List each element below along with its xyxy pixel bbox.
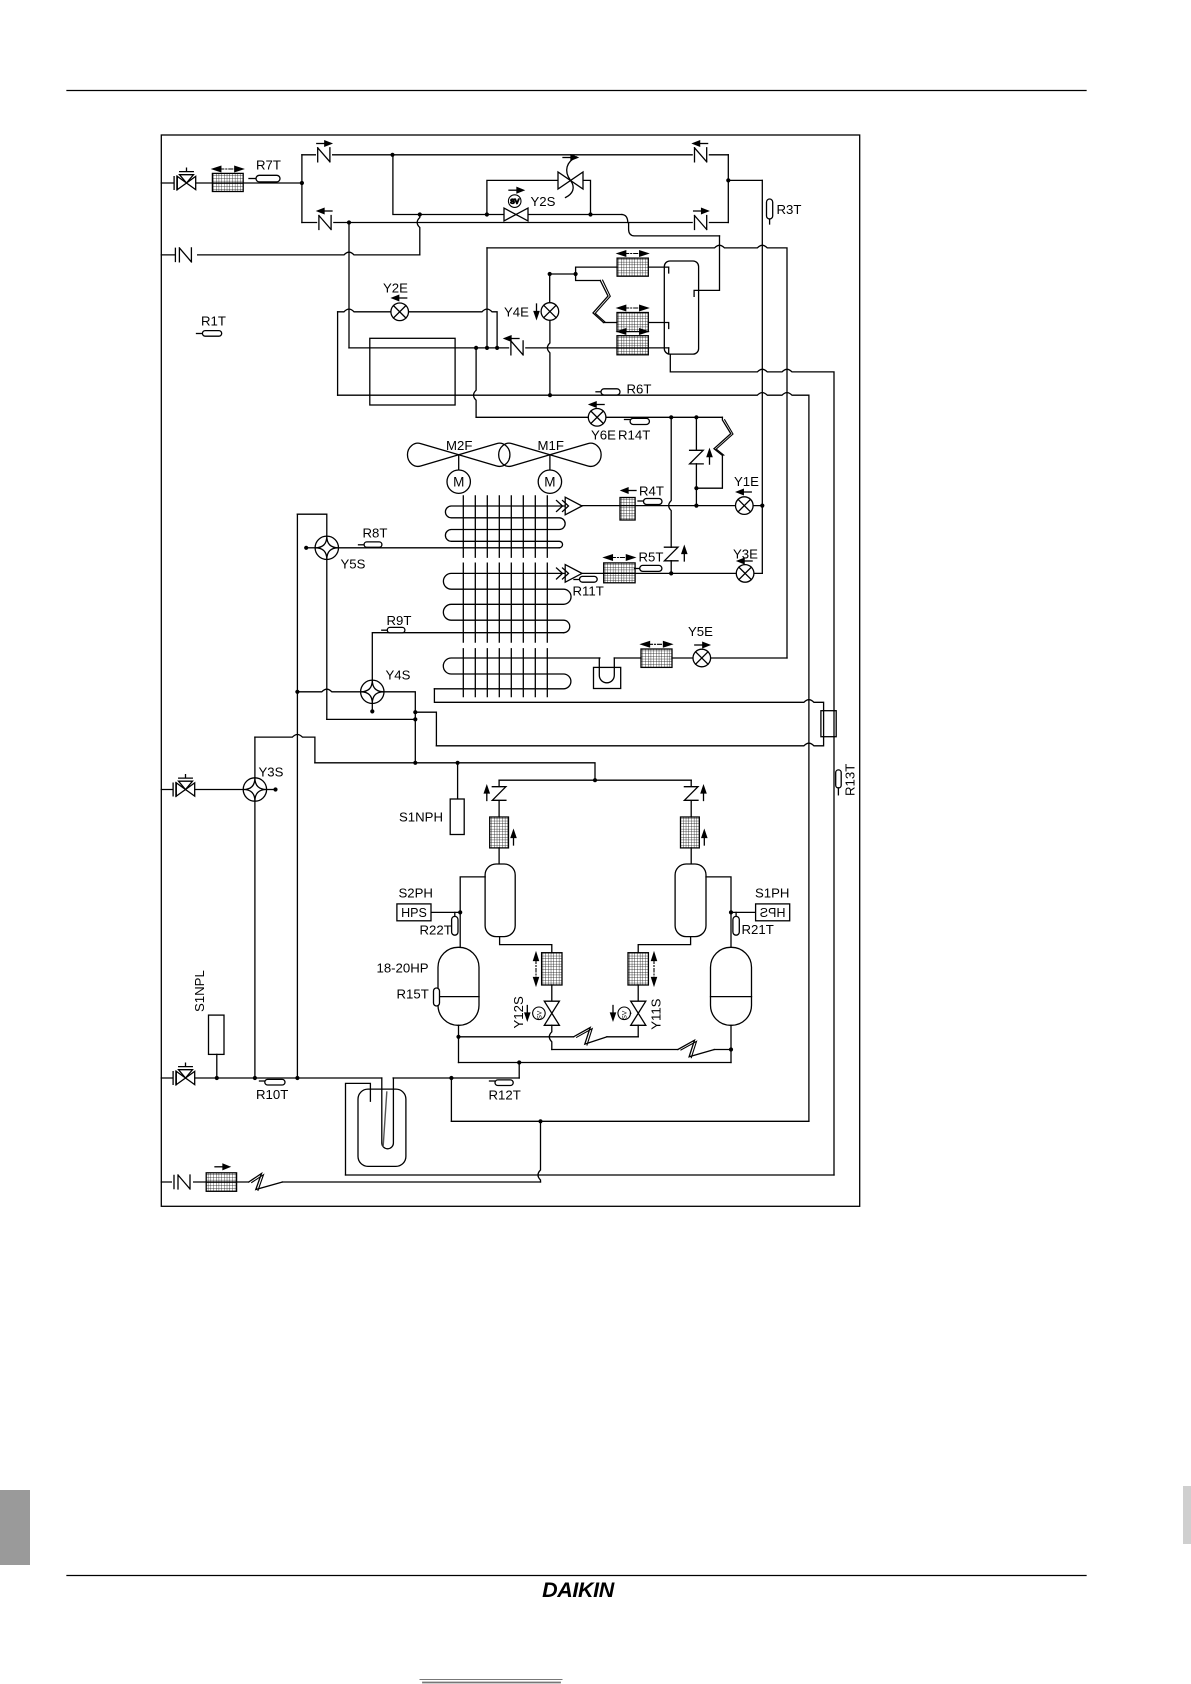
wire top check line y=154.8: [302, 154, 728, 156]
wire F2 to vessel: [648, 323, 668, 329]
sensor R6T capsule: [596, 391, 601, 393]
right gray sliver: [1183, 1486, 1191, 1544]
sensor R9T capsule: [382, 629, 387, 631]
wire R6T line y=395.2: [338, 393, 809, 1122]
svg-text:R1T: R1T: [201, 314, 226, 329]
wire oil return y=1175: [346, 1174, 835, 1176]
node 486.9: [485, 212, 489, 216]
svg-text:M: M: [544, 475, 555, 490]
page top rule: [67, 90, 1086, 92]
svg-text:SV: SV: [536, 1010, 543, 1019]
bottom footer microtext: [420, 1680, 562, 1683]
wire Y3S top link y=737.1: [255, 735, 315, 763]
wire FB2 to Y12S: [551, 985, 553, 1001]
muffler vessel left: [485, 864, 515, 937]
svg-text:Y11S: Y11S: [649, 998, 664, 1029]
node S1NPH tap: [456, 761, 460, 765]
oil separator vessel: [358, 1089, 406, 1166]
svg-text:M2F: M2F: [446, 438, 472, 453]
node header feed: [593, 778, 597, 782]
svg-text:Y5S: Y5S: [341, 557, 366, 572]
wire Y6E line y=417.3: [476, 416, 722, 418]
filter F5: [604, 563, 635, 583]
shutoff N symbol: [176, 248, 197, 263]
node z1 bottom: [694, 486, 698, 490]
check valve CV4: [693, 214, 709, 230]
wire lower check line y=222.5: [302, 222, 728, 224]
arrow beside Y12S: [525, 1006, 530, 1021]
node Y5S link: [413, 717, 417, 721]
wire drop from 247.9 x=487: [486, 248, 488, 348]
coil group A fins: [463, 496, 547, 557]
svg-text:R4T: R4T: [639, 484, 664, 499]
wire Y4S top to R9T line: [372, 633, 563, 680]
wire Y2E left drop x=337.6: [337, 312, 339, 395]
check valve CV1: [316, 147, 332, 163]
node suction join: [413, 761, 417, 765]
solenoid coil SV Y12S: [533, 1007, 546, 1020]
wire riser-drop x=476.1 to Y6E line: [474, 348, 477, 417]
wire S1NPH drop: [457, 763, 459, 799]
wire Y4S bottom stub: [371, 704, 373, 712]
check valve CV3: [693, 147, 709, 163]
coil group A tubes: [445, 506, 565, 548]
check valve CV2: [317, 214, 333, 230]
node gas-line tap: [538, 1119, 542, 1123]
svg-text:Y6E: Y6E: [591, 428, 616, 443]
wire drop to gas line: [450, 1078, 452, 1121]
wire HX feed line y=347.9: [349, 347, 669, 349]
wire Y2E line y=311.8: [338, 309, 498, 348]
filter F2: [617, 313, 648, 332]
wire R12T drop: [518, 1063, 520, 1079]
svg-text:Y3E: Y3E: [733, 547, 758, 562]
svg-text:M: M: [453, 475, 464, 490]
node R12T junction: [449, 1076, 453, 1080]
svg-text:SV: SV: [622, 1010, 629, 1019]
wire FB2r to muffler: [690, 848, 692, 864]
svg-text:HPS: HPS: [760, 906, 786, 920]
check valve right branch: [684, 787, 698, 801]
node y=222.5 x=349: [347, 220, 351, 224]
node comp right oil: [729, 1047, 733, 1051]
wire vessel right port: [694, 236, 719, 297]
svg-text:R9T: R9T: [387, 613, 412, 628]
wire bypass loop top y=180.4: [487, 180, 591, 214]
service joint rect: [821, 711, 836, 737]
wire right vertical x=728.3: [727, 155, 729, 223]
vertical arrows beside FB2: [534, 953, 539, 985]
coil group B tubes: [443, 573, 571, 632]
arrow beside right check: [701, 786, 706, 801]
sensor R12T capsule: [490, 1080, 495, 1082]
filter FB3: [628, 953, 648, 985]
node left riser bottom: [295, 1076, 299, 1080]
expansion valve Y2E: [391, 303, 409, 321]
node hot-gas tap: [413, 710, 417, 714]
filter F3 on HX feed line: [617, 336, 648, 355]
wire upper liquid header y=247.9: [487, 245, 787, 658]
arrow above Y1E: [737, 489, 752, 494]
node x=728.3 y=180.4: [726, 178, 730, 182]
svg-text:S1NPL: S1NPL: [192, 970, 207, 1012]
solenoid coil SV Y11S: [618, 1007, 631, 1020]
expansion Z valve Y1E branch: [690, 450, 704, 464]
wire compressor left bottom: [458, 1025, 460, 1062]
node econ feed: [548, 272, 552, 276]
wire jog up to filter F1 line: [576, 267, 618, 274]
zigzag on 1182: [249, 1174, 283, 1190]
wire vessel-out merge y=235.9: [629, 224, 720, 236]
coil group B fins: [463, 563, 547, 642]
svg-text:R10T: R10T: [256, 1087, 288, 1102]
wire hot-gas jog y=712.2: [415, 712, 436, 746]
node left riser Y4S: [295, 690, 299, 694]
svg-text:Y4S: Y4S: [386, 668, 411, 683]
wire Y5S top to left riser: [297, 514, 326, 536]
wire Y3S right stub: [267, 789, 276, 791]
wire F3 to vessel port tick: [668, 348, 670, 354]
wire R3T riser x=762.3: [761, 180, 763, 573]
node 487: [485, 346, 489, 350]
switch HPS S2PH box: [397, 904, 431, 921]
svg-text:R11T: R11T: [573, 584, 604, 599]
solenoid valve Y11S: [631, 1001, 646, 1025]
arrow above CV1: [317, 141, 332, 146]
wire vessel bottom to mid header: [670, 354, 834, 1175]
zigzag on 1036.8: [574, 1028, 607, 1045]
svg-text:R8T: R8T: [363, 526, 388, 541]
zigzag on 1049.5: [678, 1040, 714, 1057]
wire right branch drop: [690, 780, 692, 817]
wire Y5S bottom: [326, 560, 328, 720]
wire mid header B y=745.8: [436, 737, 823, 746]
distributor T2: [565, 565, 582, 583]
motorized valve stem: [566, 157, 577, 198]
vertical arrows beside FB3: [652, 953, 657, 985]
node on R4T line: [694, 504, 698, 508]
svg-text:18-20HP: 18-20HP: [377, 961, 429, 976]
wire suction header y=762.8: [315, 763, 595, 780]
compressor vessel left: [438, 947, 479, 1025]
svg-text:R5T: R5T: [639, 550, 664, 565]
node Y3S capped port: [273, 787, 277, 791]
node 671.2 on Y6E line: [669, 415, 673, 419]
stop valve (gas line): [173, 775, 195, 797]
dash-dot arrows above F1: [618, 251, 648, 256]
node CV1 out: [390, 153, 394, 157]
sensor R15T capsule: [434, 988, 440, 1006]
node Y3S drop: [253, 1076, 257, 1080]
node Y4S capped port: [370, 709, 374, 713]
wire R7T line y=183: [161, 182, 302, 184]
sensor R14T capsule: [625, 419, 631, 421]
coil group C tubes: [434, 658, 600, 689]
filter F6: [641, 649, 672, 667]
svg-text:M1F: M1F: [538, 438, 564, 453]
muffler vessel right: [675, 864, 706, 937]
wire Y4S right riser: [384, 692, 415, 763]
sensor S1NPL body: [209, 1015, 225, 1054]
wire Y2S line y=214.5: [393, 155, 622, 215]
arrow above CV2: [318, 208, 333, 213]
arrow beside FB2r: [702, 831, 707, 846]
wire Z2 to R5T line: [670, 561, 672, 574]
compressor vessel right: [711, 947, 752, 1025]
shutoff N symbol bottom: [172, 1175, 193, 1190]
sensor R13T capsule: [836, 770, 842, 788]
wire R8T line: [339, 547, 560, 549]
arrow above Y2E: [392, 295, 407, 300]
sensor S1NPH body: [450, 799, 464, 835]
wire right muffler to compressor: [706, 877, 731, 947]
sensor R5T capsule: [635, 568, 640, 570]
arrow beside Y11S: [611, 1006, 616, 1021]
wire drop x=540.5 crossing oil return: [538, 1121, 541, 1182]
wire FB1 to muffler: [498, 848, 500, 864]
arrow above Y5E: [695, 642, 710, 647]
sensor R1T capsule: [197, 331, 222, 337]
expansion valve Y1E: [736, 497, 754, 515]
wire drop x=671.2 crossing R4T line: [669, 417, 672, 547]
node 476.1: [474, 346, 478, 350]
wire liquid-suction main y=1078: [161, 1077, 519, 1079]
wire Y3S bottom: [254, 801, 256, 1078]
4-way valve Y4S: [361, 680, 384, 703]
arrow above CV3: [693, 141, 708, 146]
arrow beside Y4E: [534, 304, 539, 319]
sensor R10T capsule: [260, 1080, 265, 1082]
arrow above CV5: [505, 336, 520, 341]
svg-text:Y1E: Y1E: [734, 474, 759, 489]
distributor T1: [565, 497, 582, 515]
node Y4E drop on R6T line: [548, 393, 552, 397]
wire FB3 to Y11S: [637, 985, 639, 1001]
check valve CV5: [509, 341, 525, 355]
node HPS tap left: [458, 910, 462, 914]
switch HPS S1PH box: [756, 904, 790, 921]
filter FB1: [490, 817, 509, 848]
svg-text:R12T: R12T: [489, 1088, 521, 1103]
arrow beside Z1: [707, 450, 712, 465]
svg-text:R21T: R21T: [742, 922, 774, 937]
node equalizer tap: [517, 1060, 521, 1064]
expansion valve Y5E: [693, 649, 711, 667]
wire Y11S down: [637, 1025, 639, 1037]
page bottom rule: [67, 1575, 1086, 1577]
solenoid coil SV Y2S: [508, 195, 521, 208]
filter FB2r: [681, 817, 700, 848]
arrow above CV4: [694, 208, 709, 213]
oil separator dip tubes: [382, 1078, 394, 1149]
svg-text:Y2S: Y2S: [531, 194, 556, 209]
node 497.1: [495, 346, 499, 350]
filter F7: [212, 173, 243, 191]
check valve left branch: [492, 787, 506, 801]
wire compressor right bottom: [730, 1025, 732, 1062]
expansion valve Y4E: [541, 303, 559, 321]
solenoid valve Y12S: [544, 1001, 559, 1025]
svg-text:Y5E: Y5E: [688, 624, 713, 639]
arrow beside FB1: [511, 831, 516, 846]
svg-text:Y12S: Y12S: [511, 996, 526, 1028]
wire HPS right link: [731, 911, 756, 913]
svg-text:HPS: HPS: [401, 906, 427, 920]
svg-text:R3T: R3T: [777, 202, 802, 217]
dash-dot arrows above F7: [213, 166, 243, 171]
solenoid valve Y2S bowtie: [504, 208, 528, 221]
oil separator float: [383, 1092, 387, 1146]
node 696.4 on Y6E line: [694, 415, 698, 419]
capillary zigzag right: [696, 417, 730, 488]
stop valve (equalizing): [173, 1063, 195, 1085]
left gray tab: [0, 1490, 30, 1565]
svg-text:DAIKIN: DAIKIN: [542, 1578, 615, 1602]
arrow beside Z2: [682, 547, 687, 562]
node 419.8: [418, 212, 422, 216]
oil trap U tube: [599, 658, 614, 683]
sensor R7T capsule: [249, 178, 256, 180]
fan motor M2F: [458, 455, 460, 470]
node branch R7T: [300, 181, 304, 185]
wire R4T line y=505.6: [582, 505, 762, 507]
dash-dot arrows above F5: [604, 555, 634, 560]
node Y5S capped port: [304, 546, 308, 550]
dash-dot arrows above F3: [618, 329, 648, 334]
node Z2 on R5T line: [669, 571, 673, 575]
fan M1F blades: [499, 443, 601, 466]
sensor R21T capsule: [733, 916, 739, 935]
filter FL: [206, 1173, 236, 1192]
svg-text:R6T: R6T: [627, 382, 652, 397]
wire equalizer y=1062.5: [459, 1062, 732, 1064]
expansion Z valve Y3E branch: [664, 547, 678, 561]
arrow above FL: [215, 1164, 230, 1169]
wire R5T line y=573.4: [582, 572, 762, 574]
svg-text:R14T: R14T: [618, 428, 650, 443]
DAIKIN logo: [542, 1578, 615, 1602]
wire vertical x=349: [348, 223, 350, 348]
filter FB2: [542, 953, 562, 985]
filter F4: [620, 498, 635, 521]
wire left muffler bottom to Y12S: [500, 937, 552, 953]
oil trap box: [594, 667, 621, 688]
PCB cooling box: [370, 338, 455, 405]
diagram outer border: [161, 135, 859, 1206]
wire Y5E line y=658: [614, 657, 787, 659]
wire oil line y=1049.5: [552, 1049, 731, 1051]
svg-text:S1NPH: S1NPH: [399, 810, 443, 825]
wire left riser x=297.4: [296, 514, 298, 1078]
wire left muffler to compressor: [460, 877, 485, 947]
svg-text:R22T: R22T: [420, 923, 452, 938]
node econ split: [574, 272, 578, 276]
arrow beside left check: [484, 786, 489, 801]
wire Y4E down crossing HX line: [547, 321, 550, 396]
wire oil line y=1036.8: [459, 1036, 639, 1038]
node HPS tap right: [729, 910, 733, 914]
svg-text:R15T: R15T: [397, 987, 429, 1002]
oil return pickup: [346, 1083, 371, 1175]
expansion valve Y6E: [588, 409, 606, 427]
expansion valve Y4E riser: [549, 274, 551, 303]
svg-text:Y2E: Y2E: [383, 281, 408, 296]
dash-dot arrows above F6: [642, 642, 672, 647]
svg-text:R13T: R13T: [843, 764, 858, 796]
svg-text:R7T: R7T: [256, 158, 281, 173]
node R3T riser on R4T line: [760, 504, 764, 508]
wire jog down to capillary: [576, 274, 601, 281]
arrow above F4: [622, 488, 637, 493]
svg-text:Y3S: Y3S: [259, 765, 284, 780]
wire F1 to vessel: [648, 267, 668, 273]
arrow above Y2S: [509, 188, 524, 193]
arrow above Y6E: [590, 402, 605, 407]
sensor R11T capsule: [574, 579, 579, 581]
wire Y12S down crossing: [549, 1025, 552, 1049]
4-way valve Y5S: [315, 536, 338, 559]
wire Y4S left: [297, 689, 360, 692]
wire liquid main 2 y=254.9: [161, 252, 420, 255]
svg-text:S2PH: S2PH: [399, 886, 433, 901]
expansion valve Y3E: [736, 565, 754, 583]
wire Y5S bottom link y=719.4: [327, 718, 416, 720]
4-way valve Y3S: [254, 737, 256, 778]
capillary zigzag vertical: [593, 281, 608, 323]
wire Z-valve branch x=696.4: [695, 417, 697, 505]
stop valve (liquid line): [174, 168, 196, 190]
wire branch vertical x=301.9: [301, 155, 303, 223]
coil group C fins: [463, 649, 547, 697]
wire gas line y=1121.3: [451, 1120, 809, 1122]
svg-text:Y4E: Y4E: [504, 305, 529, 320]
wire left branch drop: [498, 780, 500, 817]
fan M2F blades: [407, 443, 509, 466]
wire right muffler bottom to Y11S: [638, 937, 690, 953]
wire Y5S left stub: [306, 547, 315, 549]
sensor R3T capsule: [767, 199, 773, 219]
svg-text:S1PH: S1PH: [755, 886, 789, 901]
motorized valve bowtie: [558, 172, 583, 189]
wire Y3S gas line left: [161, 789, 243, 791]
wire mid header A y=702.3: [434, 689, 823, 711]
economizer vessel: [664, 261, 698, 354]
wire to R3T riser: [728, 179, 762, 181]
wire HPS left link: [431, 911, 460, 913]
wire injection line y=1182: [161, 1181, 540, 1183]
sensor R8T capsule: [359, 544, 365, 546]
node 590.5: [588, 212, 592, 216]
wire econ feed y=274: [550, 273, 576, 275]
wire capillary to F2: [604, 322, 618, 324]
node comp left oil: [456, 1035, 460, 1039]
wire riser 419.8 with crossing hump: [417, 215, 420, 255]
sensor R22T capsule: [452, 916, 458, 935]
filter F1: [617, 258, 648, 276]
wire compressor discharge header y=780.2: [499, 779, 691, 781]
node S1NPL: [215, 1076, 219, 1080]
sensor R4T capsule: [638, 500, 643, 502]
wire jog Y2S line into lower line: [622, 215, 628, 223]
arrow above motorized valve: [563, 155, 578, 160]
fan motor M1F: [549, 455, 551, 470]
dash-dot arrows above F2: [618, 305, 648, 310]
arrow above Y3E: [738, 558, 753, 563]
